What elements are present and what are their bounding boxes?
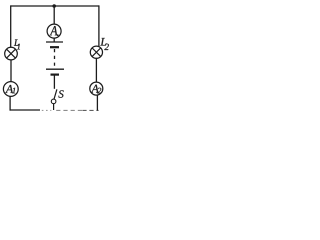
bottom rail wire faded dashes right of switch (darker part)	[82, 109, 98, 111]
lamp L1 label subscript 1	[17, 44, 20, 50]
left rail wire top segment	[10, 5, 12, 47]
ammeter A2 circle	[90, 82, 103, 95]
wire L2 to A2	[95, 58, 97, 82]
battery cell 2 short plate (-)	[51, 73, 60, 75]
ammeter A2 dial letter	[91, 85, 99, 93]
switch S label	[58, 90, 63, 97]
wire ammeter A to battery plate	[53, 38, 55, 42]
bottom rail wire faded dashes left of switch	[42, 109, 52, 111]
wire L1 to A1	[10, 60, 12, 82]
lamp L2 label subscript 2	[104, 44, 109, 50]
lamp L2 cross stroke 1	[92, 48, 100, 56]
wire junction dot to ammeter A	[53, 6, 55, 24]
left rail wire bottom segment	[9, 96, 11, 110]
wire switch contact to bottom rail	[53, 104, 55, 110]
battery dashed link wire	[54, 49, 56, 67]
lamp L1 cross stroke 1	[7, 49, 16, 58]
switch S blade	[54, 89, 57, 99]
bottom rail wire faded dashes right of switch (light part)	[56, 109, 82, 111]
top rail wire	[11, 5, 100, 7]
battery cell 1 long plate (+)	[46, 41, 63, 43]
battery cell 2 long plate (+)	[46, 68, 64, 70]
ammeter A1 dial subscript 1	[12, 88, 15, 94]
bottom rail wire solid left segment	[10, 109, 40, 111]
lamp L2 cross stroke 2	[92, 48, 100, 56]
battery cell 1 short plate (-)	[50, 46, 59, 48]
wire A2 to bottom rail	[96, 95, 98, 111]
ammeter A1 dial letter	[5, 85, 13, 93]
ammeter A dial flourish dot	[57, 34, 59, 36]
lamp L2 label letter	[100, 38, 106, 46]
switch S contact circle	[51, 99, 56, 104]
ammeter A2 dial subscript 2	[97, 88, 101, 94]
ammeter A1 circle	[3, 82, 18, 97]
ammeter A (main) circle	[47, 24, 61, 38]
right rail wire top segment	[98, 5, 100, 47]
lamp L1 label letter	[14, 39, 19, 45]
lamp L1 circle	[5, 47, 18, 60]
node junction dot at top	[52, 4, 56, 8]
wire battery to switch	[53, 76, 55, 89]
lamp L2 circle	[90, 46, 102, 58]
ammeter A dial letter	[50, 26, 58, 35]
lamp L1 cross stroke 2	[7, 49, 16, 58]
